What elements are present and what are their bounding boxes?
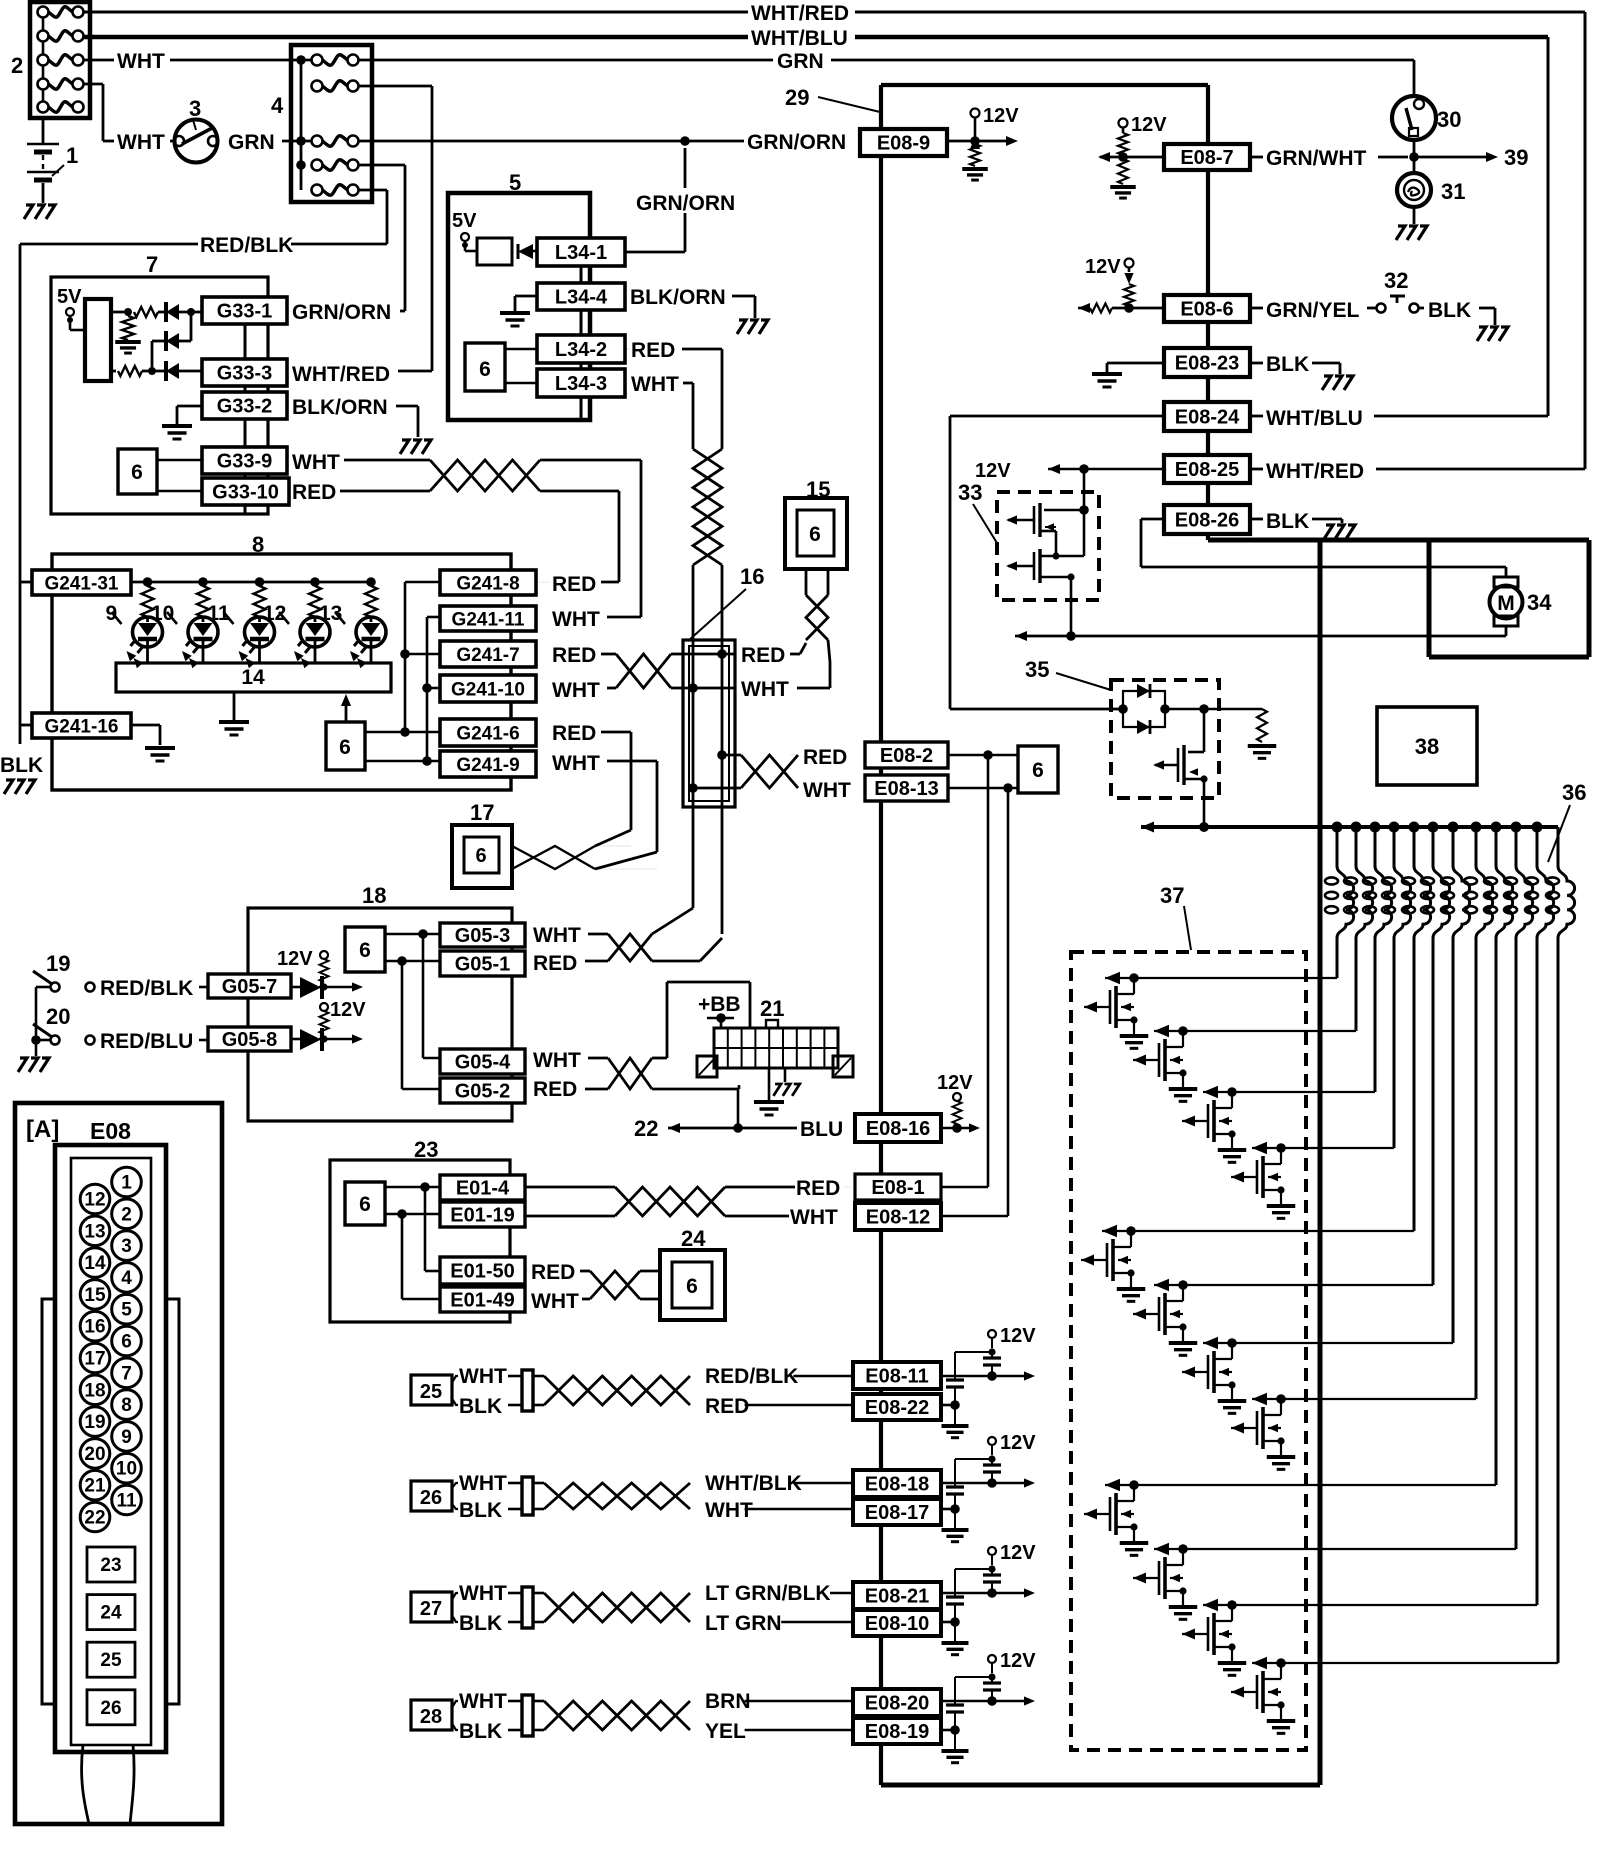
svg-text:RED: RED (803, 746, 847, 769)
coil 9 (1484, 827, 1513, 1485)
switch contact 4-5 (312, 185, 359, 196)
svg-text:19: 19 (46, 951, 70, 976)
connector box E01-4 (440, 1175, 525, 1200)
sensor 25 (411, 1375, 452, 1405)
switch 19 (33, 971, 95, 992)
wire (671, 687, 683, 690)
svg-text:5V: 5V (57, 286, 82, 308)
switch 32 (1377, 296, 1419, 313)
label BLK (459, 1499, 502, 1522)
wire (607, 687, 616, 690)
svg-text:G241-10: G241-10 (451, 679, 525, 700)
label LT GRN (705, 1612, 782, 1635)
twisted pair (741, 755, 798, 788)
label YEL (705, 1720, 746, 1743)
label RED (705, 1395, 749, 1418)
MOSFET 35 (1153, 709, 1208, 827)
svg-text:G05-1: G05-1 (455, 954, 511, 976)
svg-text:E01-49: E01-49 (450, 1290, 515, 1312)
connector box E08-20 (853, 1689, 941, 1716)
label GRN/ORN (747, 131, 846, 154)
pin 4 (112, 1263, 142, 1293)
node coil1 (1332, 822, 1343, 833)
svg-text:20: 20 (46, 1004, 70, 1029)
plug 6 (1018, 746, 1058, 793)
wire (405, 581, 440, 584)
label GRN/ORN (636, 192, 735, 215)
12V pull-up E08-16 (937, 1072, 980, 1133)
wire (601, 653, 616, 656)
diode feed G05-7 (277, 948, 363, 999)
unit box 7 (51, 277, 268, 514)
wire (1250, 519, 1342, 523)
svg-text:6: 6 (359, 939, 371, 962)
connector block 2 (30, 2, 90, 118)
wire (525, 1057, 608, 1059)
connector box E08-16 (855, 1114, 941, 1142)
wire WHT through 16 (683, 683, 735, 693)
node coil5 (1409, 822, 1420, 833)
svg-text:E08-7: E08-7 (1180, 147, 1233, 169)
label BLK (1266, 353, 1309, 376)
svg-text:3: 3 (189, 96, 201, 121)
label 2 (11, 53, 23, 78)
wire (536, 581, 619, 583)
12V pull-up E08-7 (1098, 114, 1167, 198)
wire (452, 1701, 458, 1730)
dashed box 33 (997, 492, 1099, 600)
svg-text:34: 34 (1527, 590, 1552, 615)
label 10 (151, 602, 177, 625)
label 22 (634, 1116, 658, 1141)
label GRN (228, 131, 275, 154)
wire (1107, 363, 1164, 372)
connector box G05-7 (208, 974, 291, 998)
shield bar (522, 1477, 533, 1515)
motor 34 (1490, 577, 1523, 636)
wire (987, 755, 990, 1187)
svg-text:WHT: WHT (459, 1582, 507, 1605)
svg-text:E08-6: E08-6 (1180, 299, 1233, 321)
label WHT (803, 779, 851, 802)
svg-text:LT GRN/BLK: LT GRN/BLK (705, 1582, 831, 1605)
svg-text:BLU: BLU (800, 1118, 843, 1141)
coil 7 (1441, 827, 1470, 1343)
svg-text:RED: RED (552, 722, 596, 745)
connector box E08-25 (1164, 455, 1250, 483)
connector box L34-4 (537, 283, 625, 310)
12V filter E08-20 (941, 1650, 1036, 1763)
svg-text:WHT/BLU: WHT/BLU (1266, 407, 1363, 430)
wire (732, 296, 755, 318)
connector box E08-23 (1164, 348, 1250, 377)
label WHT (552, 679, 600, 702)
wire (1250, 363, 1340, 374)
wire (358, 86, 432, 371)
svg-text:3: 3 (121, 1236, 132, 1257)
label WHT (531, 1290, 579, 1313)
relay block 4 (291, 45, 372, 202)
wire (948, 750, 1018, 760)
svg-text:BLK: BLK (0, 754, 43, 777)
svg-text:6: 6 (475, 845, 486, 867)
svg-text:22: 22 (634, 1116, 658, 1141)
wire (398, 370, 432, 373)
svg-text:6: 6 (809, 523, 821, 546)
label WHT (117, 131, 165, 154)
pin 8 (112, 1390, 142, 1420)
coil 3 (1363, 827, 1392, 1092)
pin 13 (80, 1216, 110, 1246)
ECU box 29 outline (881, 85, 1589, 1785)
connector box E01-19 (440, 1202, 525, 1227)
connector wires (82, 1745, 135, 1824)
label 32 (1384, 268, 1408, 293)
connector box E08-6 (1164, 295, 1250, 322)
svg-text:G33-10: G33-10 (212, 482, 279, 504)
plug 6 (465, 343, 505, 391)
svg-text:17: 17 (470, 800, 494, 825)
wire GRN/ORN node (358, 136, 744, 146)
MOSFET cell 2 (1133, 1025, 1356, 1102)
svg-text:BLK: BLK (459, 1395, 502, 1418)
LED 12 (294, 577, 330, 668)
label WHT (552, 752, 600, 775)
dashed box 37 (1071, 952, 1306, 1750)
label 19 (46, 951, 70, 976)
LED 11 (239, 577, 275, 668)
svg-text:GRN/ORN: GRN/ORN (292, 301, 391, 324)
label WHT (552, 608, 600, 631)
svg-text:14: 14 (241, 666, 265, 689)
label WHT/RED (1266, 460, 1364, 483)
connector box E01-49 (440, 1287, 525, 1312)
svg-text:RED: RED (741, 644, 785, 667)
svg-text:GRN: GRN (228, 131, 275, 154)
svg-text:G241-6: G241-6 (456, 723, 519, 744)
connector box E08-17 (853, 1499, 941, 1525)
wire (422, 617, 432, 761)
wire (157, 459, 202, 462)
svg-text:5V: 5V (452, 210, 477, 232)
svg-text:WHT: WHT (292, 451, 340, 474)
svg-text:WHT: WHT (459, 1690, 507, 1713)
wire (1250, 468, 1585, 471)
opto IC box (85, 299, 111, 381)
pin 11 (112, 1485, 142, 1515)
svg-text:E08-2: E08-2 (880, 745, 933, 767)
MOSFET cell 11 (1182, 1599, 1537, 1676)
svg-text:26: 26 (100, 1698, 121, 1719)
svg-text:35: 35 (1025, 657, 1049, 682)
wire (595, 732, 631, 846)
svg-text:G05-4: G05-4 (455, 1052, 511, 1074)
svg-text:GRN: GRN (777, 50, 824, 73)
wire arrow (947, 136, 1018, 146)
ground (1322, 376, 1353, 390)
plug 15 (785, 498, 847, 569)
ground (737, 320, 768, 334)
connector grid 21 (714, 1020, 838, 1068)
plug 6 (326, 722, 365, 770)
ground (24, 205, 55, 219)
svg-text:1: 1 (66, 143, 78, 168)
svg-text:12V: 12V (1000, 1432, 1036, 1454)
ground (1092, 374, 1122, 387)
svg-text:WHT/BLU: WHT/BLU (751, 27, 848, 50)
connector box E08-24 (1164, 402, 1250, 431)
pin 22 (80, 1502, 110, 1532)
wire (291, 190, 387, 244)
wire (793, 1482, 853, 1485)
label WHT/BLU (1266, 407, 1363, 430)
wire (652, 1088, 739, 1091)
wire (525, 1215, 615, 1218)
svg-text:E08-10: E08-10 (865, 1613, 930, 1635)
wire (365, 756, 440, 766)
label 12 (263, 602, 289, 625)
wire (855, 37, 1548, 416)
wire (1141, 519, 1506, 567)
wire (738, 1085, 741, 1089)
wire (452, 1593, 458, 1622)
label 12V arrow (975, 460, 1164, 482)
MOSFET cell 10 (1133, 1543, 1516, 1620)
svg-text:WHT: WHT (705, 1499, 753, 1522)
ground (500, 313, 530, 326)
svg-text:E08-17: E08-17 (865, 1502, 930, 1524)
wire (640, 1298, 660, 1301)
unit box 38 (1377, 707, 1477, 785)
pin 9 (112, 1422, 142, 1452)
wire motor top (1505, 567, 1508, 577)
svg-text:WHT: WHT (741, 678, 789, 701)
MOSFET cell 9 (1084, 1479, 1496, 1556)
wire (157, 490, 202, 493)
wire trunk (580, 266, 583, 420)
twisted pair (615, 1187, 725, 1216)
12V pull-up E08-6 (1078, 256, 1164, 313)
switch contact 2-5 (38, 102, 84, 113)
label WHT (459, 1472, 507, 1495)
svg-text:GRN/WHT: GRN/WHT (1266, 147, 1366, 170)
label GRN (777, 50, 824, 73)
label RED (533, 1078, 577, 1101)
svg-text:WHT: WHT (533, 924, 581, 947)
svg-text:RED: RED (533, 1078, 577, 1101)
connector box E01-50 (440, 1257, 525, 1284)
node coil8 (1471, 822, 1482, 833)
label 33 (958, 480, 997, 543)
svg-text:23: 23 (414, 1137, 438, 1162)
label 15 (806, 477, 830, 502)
node coil11 (1532, 822, 1543, 833)
label 24 (681, 1226, 706, 1251)
ground (400, 440, 431, 454)
ground (18, 1058, 49, 1072)
wire (652, 938, 722, 961)
label BLK (459, 1720, 502, 1743)
label RED/BLK (100, 977, 193, 1000)
svg-text:WHT/RED: WHT/RED (751, 2, 849, 25)
connector box E08-10 (853, 1610, 941, 1636)
label 21 (760, 996, 784, 1021)
connector tab right (166, 1299, 179, 1704)
svg-text:E08-23: E08-23 (1175, 353, 1240, 375)
connector box G241-11 (440, 606, 536, 631)
wire (1413, 140, 1416, 173)
wire (585, 1088, 608, 1091)
12V pull-up (962, 105, 1019, 180)
label 4 (271, 93, 284, 118)
ground (1396, 226, 1427, 240)
svg-text:6: 6 (1032, 759, 1044, 782)
twisted pair (533, 1483, 690, 1509)
svg-text:WHT: WHT (803, 779, 851, 802)
twisted pair (693, 449, 722, 565)
label 8 (252, 532, 264, 557)
wire (625, 213, 685, 252)
wire (423, 934, 440, 1058)
wire (595, 761, 657, 869)
svg-text:23: 23 (100, 1555, 121, 1576)
sensor 28 (411, 1700, 452, 1730)
wire (1250, 307, 1376, 310)
wire WHT/BLU top (84, 35, 748, 40)
svg-text:12V: 12V (1000, 1650, 1036, 1672)
label 31 (1441, 179, 1465, 204)
ground (1324, 525, 1355, 539)
wire GRN (358, 59, 773, 62)
ground (754, 1068, 784, 1115)
wire (797, 662, 830, 688)
label 5 (509, 170, 521, 195)
svg-text:22: 22 (84, 1508, 105, 1529)
twisted pair (533, 1701, 690, 1730)
MOSFET cell 5 (1081, 1225, 1414, 1302)
wire (950, 416, 1164, 709)
+BB pin (707, 1013, 734, 1028)
svg-text:E08-21: E08-21 (865, 1586, 930, 1608)
12V filter E08-21 (941, 1542, 1036, 1655)
wire (652, 982, 750, 1058)
label 13 (319, 602, 345, 625)
wire (625, 349, 722, 449)
coil 4 (1382, 827, 1411, 1148)
svg-text:RED: RED (705, 1395, 749, 1418)
svg-text:WHT: WHT (459, 1472, 507, 1495)
svg-text:RED: RED (552, 644, 596, 667)
wire (941, 1186, 988, 1189)
twisted pair (806, 569, 830, 662)
MOSFET cell 4 (1231, 1142, 1394, 1219)
svg-text:E08-11: E08-11 (865, 1366, 928, 1388)
coil 12 (1546, 827, 1575, 1663)
svg-text:5: 5 (121, 1300, 132, 1321)
svg-text:28: 28 (420, 1706, 442, 1728)
svg-text:12V: 12V (1131, 114, 1167, 136)
svg-text:11: 11 (208, 602, 231, 625)
svg-text:E08-16: E08-16 (866, 1118, 931, 1140)
label WHT (533, 924, 581, 947)
svg-text:G241-9: G241-9 (456, 755, 519, 776)
label RED (631, 339, 675, 362)
ground (4, 780, 35, 794)
connector box E08-2 (865, 742, 948, 768)
wire (790, 754, 798, 756)
svg-text:31: 31 (1441, 179, 1465, 204)
wire (340, 490, 430, 493)
wire (745, 1700, 853, 1703)
connector box G33-10 (202, 478, 289, 505)
svg-text:12V: 12V (277, 948, 313, 970)
label BLK (0, 754, 43, 777)
connector box G05-2 (440, 1078, 525, 1103)
wire (385, 956, 440, 966)
dashed box 35 (1111, 680, 1219, 798)
svg-text:12V: 12V (1000, 1542, 1036, 1564)
twisted pair (590, 1271, 640, 1299)
svg-text:E01-4: E01-4 (456, 1178, 510, 1200)
connector box E08-9 (860, 129, 947, 156)
svg-text:12V: 12V (937, 1072, 973, 1094)
wire (692, 565, 695, 908)
wire motor bottom (1015, 631, 1506, 641)
wire (745, 1508, 853, 1511)
shield bar (522, 1370, 533, 1411)
wire (31, 987, 50, 1045)
bracket (833, 1056, 853, 1077)
svg-text:16: 16 (84, 1317, 105, 1338)
connector box L34-3 (537, 369, 625, 397)
svg-text:12: 12 (263, 602, 286, 625)
coil 6 (1421, 827, 1450, 1285)
node coil4 (1389, 822, 1400, 833)
wire (508, 1701, 522, 1730)
svg-text:RED: RED (631, 339, 675, 362)
twisted pair (608, 934, 652, 961)
svg-text:WHT: WHT (552, 752, 600, 775)
coil 1 (1325, 827, 1354, 978)
plug 6 (118, 449, 157, 494)
wire (595, 868, 657, 870)
label 29 (785, 85, 880, 112)
svg-text:38: 38 (1415, 734, 1439, 759)
svg-text:BLK: BLK (1266, 510, 1309, 533)
wire (20, 581, 32, 584)
svg-text:21: 21 (760, 996, 784, 1021)
connector box E08-19 (853, 1718, 941, 1744)
connector box E08-13 (865, 775, 948, 801)
switch contact 4-1 (312, 55, 359, 66)
unit box 23 (330, 1160, 510, 1322)
label 36 (1548, 780, 1586, 862)
wire (844, 1186, 850, 1188)
node coil2 (1351, 822, 1362, 833)
wire (170, 140, 175, 143)
svg-text:GRN/ORN: GRN/ORN (747, 131, 846, 154)
connector box E08-11 (853, 1362, 941, 1389)
svg-text:GRN/ORN: GRN/ORN (636, 192, 735, 215)
svg-text:8: 8 (121, 1395, 132, 1416)
connector box G33-1 (202, 297, 287, 324)
wire (745, 1404, 853, 1407)
svg-text:GRN/YEL: GRN/YEL (1266, 299, 1360, 322)
unit box 18 (248, 908, 512, 1121)
svg-text:11: 11 (116, 1491, 137, 1512)
label RED (741, 644, 785, 667)
wire (385, 1182, 440, 1192)
